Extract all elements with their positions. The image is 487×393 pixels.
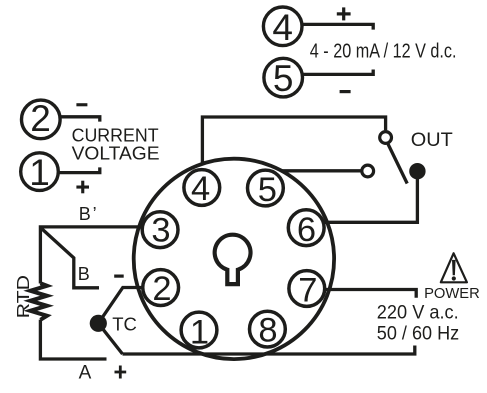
svg-text:2: 2 — [152, 270, 171, 308]
svg-text:B’: B’ — [79, 204, 99, 224]
svg-text:B: B — [78, 264, 90, 284]
svg-text:OUT: OUT — [411, 129, 453, 151]
svg-text:1: 1 — [29, 152, 50, 193]
svg-text:VOLTAGE: VOLTAGE — [72, 143, 160, 164]
svg-text:6: 6 — [297, 211, 316, 249]
svg-text:A: A — [79, 363, 92, 384]
svg-text:5: 5 — [273, 58, 294, 99]
svg-text:POWER: POWER — [424, 285, 480, 302]
svg-text:220 V a.c.: 220 V a.c. — [377, 302, 459, 324]
svg-text:7: 7 — [298, 271, 317, 309]
svg-text:1: 1 — [190, 313, 209, 351]
svg-text:2: 2 — [30, 98, 51, 139]
svg-text:RTD: RTD — [13, 275, 33, 319]
svg-text:50 / 60 Hz: 50 / 60 Hz — [377, 322, 459, 344]
svg-text:4: 4 — [272, 7, 293, 48]
svg-text:4 - 20 mA / 12 V d.c.: 4 - 20 mA / 12 V d.c. — [310, 41, 457, 63]
svg-text:3: 3 — [151, 212, 170, 250]
svg-text:TC: TC — [112, 314, 137, 335]
svg-text:5: 5 — [258, 171, 277, 209]
svg-text:4: 4 — [191, 170, 210, 208]
svg-text:8: 8 — [258, 312, 277, 350]
